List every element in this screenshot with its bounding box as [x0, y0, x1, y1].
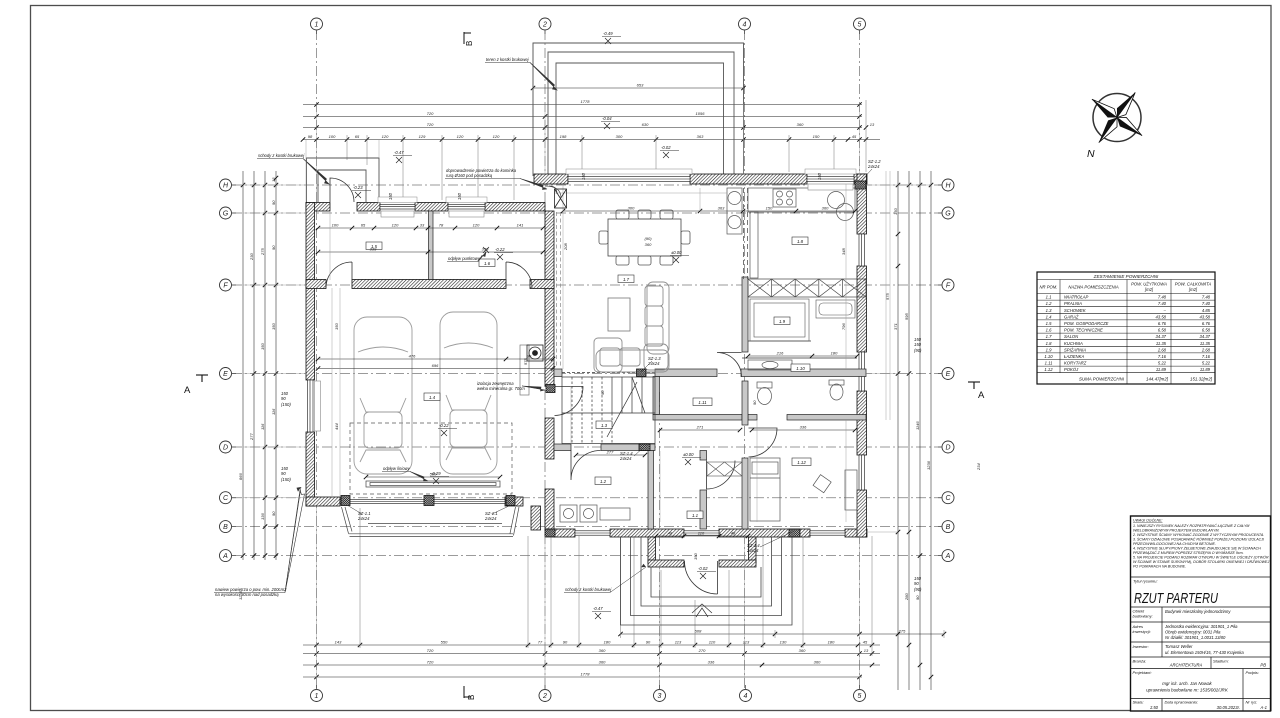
svg-text:ŁAZIENKA: ŁAZIENKA	[1064, 354, 1084, 359]
wall: right	[857, 174, 867, 234]
window bedroom bottom	[810, 531, 845, 535]
svg-text:(90): (90)	[644, 236, 652, 241]
svg-text:(90): (90)	[914, 587, 922, 592]
svg-text:24x24: 24x24	[867, 164, 880, 169]
svg-text:Skala:: Skala:	[1133, 700, 1144, 705]
grid row C	[232, 497, 942, 499]
svg-text:7.48: 7.48	[1158, 295, 1167, 300]
dim ticks left	[241, 176, 278, 558]
svg-text:6.58: 6.58	[1158, 328, 1167, 333]
svg-text:1:50: 1:50	[1150, 705, 1159, 710]
svg-text:5. NA PROJEKCIE PODANO ROZMIAR: 5. NA PROJEKCIE PODANO ROZMIAR OTWORU W …	[1133, 555, 1269, 560]
svg-text:PRZECIWWILGOCIOWEJ NA CHUDYM B: PRZECIWWILGOCIOWEJ NA CHUDYM BETONIE.	[1133, 542, 1216, 546]
hall divider right	[700, 451, 707, 461]
svg-text:100: 100	[332, 223, 339, 228]
svg-text:SUMA POWIERZCHNI: SUMA POWIERZCHNI	[1079, 377, 1125, 382]
svg-text:24x24: 24x24	[357, 516, 370, 521]
svg-text:100: 100	[329, 134, 336, 139]
svg-text:208: 208	[563, 243, 568, 251]
svg-text:1: 1	[315, 22, 319, 29]
svg-text:271: 271	[696, 425, 704, 430]
svg-text:SPIŻARNIA: SPIŻARNIA	[1064, 347, 1086, 352]
svg-text:13: 13	[870, 122, 875, 127]
svg-text:150: 150	[817, 172, 822, 180]
svg-text:N: N	[1087, 148, 1095, 160]
door arc steps top-left	[330, 178, 354, 202]
bath top line	[742, 357, 857, 359]
svg-text:D: D	[223, 445, 228, 452]
svg-text:65: 65	[355, 134, 360, 139]
svg-text:-0.47: -0.47	[593, 606, 603, 611]
door arc bath	[717, 353, 742, 378]
svg-text:1778: 1778	[581, 672, 591, 677]
garage gate	[340, 500, 505, 504]
svg-text:508: 508	[695, 629, 702, 634]
svg-text:1.9: 1.9	[779, 319, 786, 324]
coffee table	[608, 298, 630, 331]
INTERIOR DIM ROWS	[318, 211, 857, 536]
section marker A right	[968, 382, 980, 389]
svg-text:150: 150	[334, 323, 339, 330]
svg-text:90: 90	[600, 390, 605, 395]
ROOM LABEL BOXES	[366, 237, 811, 519]
svg-text:A: A	[978, 390, 985, 401]
interior partitions	[429, 211, 867, 529]
svg-text:110: 110	[709, 640, 716, 645]
entry direction chevron	[692, 604, 712, 617]
door arc bedroom	[749, 428, 778, 457]
svg-text:WIELOBRANŻOWYM PROJEKTEM BUDOW: WIELOBRANŻOWYM PROJEKTEM BUDOWLANYM.	[1133, 529, 1219, 533]
extra extension lines texture	[243, 104, 931, 680]
svg-text:120: 120	[457, 134, 464, 139]
svg-text:-0.49: -0.49	[603, 31, 613, 36]
svg-text:144.47[m2]: 144.47[m2]	[1146, 377, 1169, 382]
extension verticals bottom	[360, 508, 944, 656]
svg-text:150: 150	[914, 342, 922, 347]
svg-text:B: B	[223, 524, 228, 531]
porch wall right	[749, 537, 757, 563]
svg-text:G: G	[223, 211, 229, 218]
COMPASS ROSE	[1074, 74, 1161, 161]
car 2	[440, 312, 497, 474]
fireplace	[555, 189, 567, 208]
svg-text:1.3: 1.3	[601, 423, 608, 428]
svg-text:budowlany:: budowlany:	[1133, 614, 1153, 619]
top dim numbers	[308, 83, 875, 140]
svg-text:Inwestor:: Inwestor:	[1133, 644, 1149, 649]
svg-text:360: 360	[822, 206, 829, 211]
svg-text:NAZWA POMIESZCZENIA: NAZWA POMIESZCZENIA	[1068, 285, 1118, 290]
svg-text:7.16: 7.16	[1202, 354, 1211, 359]
svg-text:KORYTARZ: KORYTARZ	[1064, 361, 1087, 366]
driveway ramp	[342, 507, 520, 537]
wall: step garage/house	[531, 506, 541, 530]
AREA TABLE	[1037, 272, 1215, 384]
window kitchen	[807, 177, 854, 182]
svg-text:720: 720	[427, 122, 434, 127]
svg-text:PO POMIARACH NA BUDOWIE.: PO POMIARACH NA BUDOWIE.	[1133, 565, 1186, 569]
svg-text:1.4: 1.4	[429, 395, 436, 400]
svg-text:7.40: 7.40	[1202, 301, 1211, 306]
svg-text:-0.47: -0.47	[394, 150, 404, 155]
svg-text:5: 5	[858, 22, 862, 29]
small upper sills above windows	[378, 169, 856, 203]
svg-text:1.11: 1.11	[698, 400, 707, 405]
dining table	[599, 210, 690, 265]
window utility 2	[448, 205, 485, 210]
svg-text:150: 150	[457, 192, 462, 200]
svg-text:-0.22: -0.22	[495, 247, 505, 252]
svg-text:11.35: 11.35	[1156, 341, 1167, 346]
svg-text:1.2: 1.2	[1046, 301, 1052, 306]
svg-text:POW. UŻYTKOWA: POW. UŻYTKOWA	[1131, 282, 1167, 287]
svg-text:7.40: 7.40	[1158, 301, 1167, 306]
svg-text:136: 136	[260, 513, 265, 520]
DIMENSION CHAINS	[243, 88, 944, 690]
right dim chains	[897, 171, 899, 690]
porch wall bottom right	[719, 560, 756, 567]
svg-text:150: 150	[813, 134, 820, 139]
bedroom/hall wall	[742, 277, 748, 352]
svg-text:43.58: 43.58	[1200, 314, 1211, 319]
extension verticals top	[347, 43, 866, 200]
svg-text:1.10: 1.10	[1044, 354, 1053, 359]
grid row E	[232, 373, 942, 375]
svg-text:24x24: 24x24	[647, 361, 660, 366]
svg-text:(150): (150)	[281, 402, 291, 407]
wall below stairs	[554, 444, 571, 451]
svg-text:48: 48	[668, 531, 673, 536]
svg-text:B: B	[946, 524, 951, 531]
wall above corridor	[554, 369, 562, 377]
svg-text:wełna mineralna gr. 70cm: wełna mineralna gr. 70cm	[477, 386, 525, 391]
svg-text:5.22: 5.22	[1158, 361, 1167, 366]
svg-text:1.12: 1.12	[1044, 367, 1053, 372]
chair bedroom	[813, 475, 831, 493]
svg-text:1.4: 1.4	[1046, 314, 1052, 319]
svg-text:5.22: 5.22	[1202, 361, 1211, 366]
svg-text:48: 48	[731, 531, 736, 536]
svg-text:653: 653	[637, 83, 644, 88]
svg-text:360: 360	[645, 242, 652, 247]
svg-text:363: 363	[697, 134, 704, 139]
svg-text:500: 500	[430, 472, 437, 477]
grid row A	[232, 555, 942, 557]
svg-text:[m2]: [m2]	[1188, 287, 1198, 292]
svg-text:180: 180	[831, 351, 838, 356]
svg-text:1778: 1778	[581, 99, 591, 104]
bottom dim row 720/360/270/360	[303, 653, 880, 655]
svg-text:1.8: 1.8	[797, 239, 804, 244]
bubble stems	[232, 30, 943, 690]
svg-text:1. NINIEJSZY RYSUNEK NALEŻY RO: 1. NINIEJSZY RYSUNEK NALEŻY ROZPATRYWAĆ …	[1133, 523, 1249, 528]
svg-text:120: 120	[382, 134, 389, 139]
svg-text:2: 2	[542, 693, 547, 700]
bedroom desk	[845, 470, 857, 510]
svg-text:360: 360	[797, 122, 804, 127]
svg-text:150: 150	[693, 553, 698, 560]
svg-text:143: 143	[335, 640, 342, 645]
laundry machines	[560, 505, 630, 522]
svg-text:98: 98	[308, 134, 313, 139]
svg-text:360: 360	[599, 648, 606, 653]
svg-text:D: D	[945, 445, 950, 452]
svg-text:275: 275	[260, 248, 265, 256]
svg-text:13: 13	[864, 648, 869, 653]
svg-text:1.1: 1.1	[1046, 295, 1052, 300]
svg-text:120: 120	[473, 223, 480, 228]
svg-text:±0.00: ±0.00	[671, 250, 682, 255]
entry steps top-left	[307, 158, 380, 202]
wall: left	[306, 203, 315, 381]
left dim numbers rotated	[238, 177, 276, 600]
svg-text:NR POM.: NR POM.	[1040, 285, 1058, 290]
bottom dim row 508/275	[620, 633, 944, 635]
grid row G	[232, 212, 942, 214]
svg-text:180: 180	[828, 640, 835, 645]
svg-text:SCHOWEK: SCHOWEK	[1064, 308, 1086, 313]
svg-text:1.5: 1.5	[1046, 321, 1052, 326]
dim ticks bottom	[314, 632, 946, 679]
svg-text:11.89: 11.89	[1156, 367, 1167, 372]
bottom dim numbers	[335, 629, 906, 677]
svg-text:141: 141	[517, 223, 524, 228]
svg-text:WIATROŁAP: WIATROŁAP	[1064, 295, 1089, 300]
svg-text:90: 90	[563, 640, 568, 645]
svg-text:SALON: SALON	[1064, 334, 1079, 339]
grid line 3	[659, 392, 661, 689]
garage radiator	[520, 345, 529, 395]
svg-text:F: F	[946, 283, 951, 290]
terrace step 2	[548, 52, 734, 176]
svg-text:Tomasz Weller: Tomasz Weller	[1165, 644, 1193, 649]
svg-text:A: A	[945, 553, 951, 560]
section marker A left	[196, 375, 208, 382]
svg-text:339: 339	[370, 247, 377, 252]
svg-text:(90): (90)	[914, 348, 922, 353]
wall: house bottom	[554, 529, 575, 537]
door arc 1.2	[571, 451, 601, 481]
svg-text:11.35: 11.35	[1200, 341, 1211, 346]
right dim numbers rotated	[893, 208, 931, 601]
svg-text:-0.02: -0.02	[661, 145, 671, 150]
window garage left	[308, 380, 314, 432]
svg-text:1056: 1056	[696, 111, 706, 116]
svg-text:24x24: 24x24	[746, 548, 759, 553]
pantry shelves	[750, 299, 809, 341]
top dim row 720/1056	[303, 116, 862, 118]
svg-text:336: 336	[800, 425, 807, 430]
svg-text:ARCHITEKTURA: ARCHITEKTURA	[1169, 663, 1203, 668]
svg-text:575: 575	[885, 293, 890, 300]
TITLE BLOCK	[1131, 516, 1271, 711]
svg-text:630: 630	[642, 122, 649, 127]
window 1.2	[575, 531, 610, 535]
grid row H	[232, 184, 942, 186]
svg-text:150: 150	[260, 343, 265, 350]
door arc 1.5	[326, 262, 352, 288]
hall/1.2 divider	[648, 451, 654, 530]
svg-text:PRALNIA: PRALNIA	[1064, 301, 1082, 306]
svg-text:1.6: 1.6	[1046, 328, 1052, 333]
svg-text:90: 90	[281, 471, 286, 476]
svg-text:24x24: 24x24	[484, 516, 497, 521]
svg-text:UWAGI OGÓLNE:: UWAGI OGÓLNE:	[1133, 518, 1163, 523]
dim ticks right	[896, 183, 933, 679]
svg-text:E: E	[223, 371, 228, 378]
svg-text:575: 575	[523, 358, 528, 365]
svg-text:90: 90	[646, 640, 651, 645]
svg-text:90: 90	[752, 400, 757, 405]
svg-text:300: 300	[616, 134, 623, 139]
stair direction line	[607, 382, 637, 437]
wardrobe truss	[748, 279, 866, 297]
svg-text:360: 360	[814, 660, 821, 665]
svg-text:360: 360	[599, 660, 606, 665]
svg-text:198: 198	[560, 134, 567, 139]
pantry bottom line	[748, 340, 811, 342]
svg-text:275: 275	[898, 629, 906, 634]
svg-text:866: 866	[238, 473, 243, 480]
entry door gap	[684, 531, 719, 535]
chimney labels	[281, 159, 922, 592]
door arc hall	[707, 461, 736, 490]
section marker B bottom	[464, 686, 471, 698]
grid line 4	[744, 30, 746, 689]
CHIMNEY BLOCKS	[545, 181, 866, 537]
svg-text:696: 696	[432, 363, 439, 368]
pipe bend at fireplace corner	[545, 186, 561, 198]
svg-text:230: 230	[249, 253, 254, 261]
svg-text:A: A	[184, 385, 191, 396]
bottom dim row 1778	[303, 676, 862, 678]
svg-text:280: 280	[904, 593, 909, 601]
partition 1.5/1.6	[429, 211, 434, 280]
svg-text:550: 550	[441, 640, 448, 645]
svg-text:90: 90	[271, 511, 276, 516]
svg-text:1.7: 1.7	[623, 277, 630, 282]
stairwell open line	[562, 372, 655, 374]
ramp chimney blocks SZ-1.1	[341, 496, 515, 506]
svg-text:34.37: 34.37	[1156, 334, 1167, 339]
svg-text:1.8: 1.8	[1046, 341, 1052, 346]
top dim row 720/630/360	[303, 127, 862, 129]
corridor/stairs wall	[653, 377, 660, 415]
svg-text:90: 90	[914, 581, 919, 586]
svg-text:13: 13	[271, 177, 276, 182]
svg-text:78: 78	[439, 223, 444, 228]
svg-text:±0.00: ±0.00	[683, 452, 694, 457]
svg-text:1.12: 1.12	[797, 460, 806, 465]
svg-text:65: 65	[361, 223, 366, 228]
svg-text:Data opracowania:: Data opracowania:	[1165, 700, 1198, 705]
svg-text:POM. TECHNICZNE: POM. TECHNICZNE	[1064, 328, 1103, 333]
ENTRY PORCH bottom	[648, 537, 756, 567]
svg-text:W ŚCIANIE W STANIE SUROWYM), D: W ŚCIANIE W STANIE SUROWYM), DOBÓR STOLA…	[1133, 559, 1269, 564]
toilet	[757, 382, 772, 405]
bed	[750, 458, 780, 521]
grid line 1	[316, 30, 318, 689]
door arc 1.6	[506, 262, 532, 288]
boiler 1.6	[527, 345, 543, 361]
svg-text:720: 720	[427, 660, 434, 665]
svg-text:rurą Ø160 pod posadzką: rurą Ø160 pod posadzką	[446, 173, 493, 178]
svg-text:1.9: 1.9	[1046, 347, 1052, 352]
ELEVATION MARKERS	[352, 31, 716, 619]
grid row F	[232, 284, 942, 286]
svg-text:ZESTAWIENIE POWIERZCHNI: ZESTAWIENIE POWIERZCHNI	[1093, 274, 1159, 279]
wall: garage bottom	[306, 497, 340, 506]
porch wall left	[648, 537, 656, 563]
window sills	[315, 184, 854, 431]
svg-text:90: 90	[271, 245, 276, 250]
svg-text:34.37: 34.37	[1200, 334, 1211, 339]
svg-text:7.16: 7.16	[1158, 354, 1167, 359]
DOOR ARCS	[326, 178, 777, 489]
svg-text:277: 277	[606, 450, 614, 455]
svg-text:2.68: 2.68	[1201, 347, 1211, 352]
dim ticks top	[301, 86, 868, 142]
svg-text:RZUT PARTERU: RZUT PARTERU	[1134, 591, 1218, 607]
porch steps	[621, 537, 793, 625]
svg-text:90: 90	[527, 354, 532, 359]
terrace step 3	[556, 63, 724, 174]
svg-text:4: 4	[744, 693, 748, 700]
svg-text:1.7: 1.7	[1046, 334, 1052, 339]
svg-text:POW. CAŁKOWITA: POW. CAŁKOWITA	[1175, 282, 1212, 287]
wall: mid vertical	[545, 211, 554, 386]
svg-text:116: 116	[260, 423, 265, 430]
svg-text:45: 45	[852, 134, 857, 139]
svg-text:360: 360	[799, 648, 806, 653]
entry door arc	[685, 561, 718, 594]
svg-text:1236: 1236	[926, 460, 931, 470]
svg-text:1.11: 1.11	[1045, 361, 1053, 366]
svg-text:2.68: 2.68	[1157, 347, 1167, 352]
window bedroom right	[859, 455, 865, 490]
svg-text:150: 150	[766, 206, 773, 211]
WALLS	[306, 174, 867, 537]
svg-text:110: 110	[698, 531, 705, 536]
svg-text:Stadium:: Stadium:	[1213, 659, 1229, 664]
kitchen counter	[727, 188, 855, 278]
svg-text:Obręb ewidencyjny: 0031 Piła: Obręb ewidencyjny: 0031 Piła	[1165, 630, 1221, 635]
wall: utility top	[306, 203, 330, 212]
svg-text:F: F	[223, 283, 228, 290]
svg-text:90: 90	[281, 396, 286, 401]
TERRACE top right	[533, 43, 744, 176]
svg-text:PRZEWIĄZAĆ Z MUREM POPRZEZ STR: PRZEWIĄZAĆ Z MUREM POPRZEZ STRZĘPIA O WY…	[1133, 550, 1244, 555]
car 1	[354, 317, 412, 474]
window terrace door	[568, 177, 690, 182]
svg-text:363: 363	[718, 206, 725, 211]
svg-text:129: 129	[419, 134, 426, 139]
svg-text:180: 180	[604, 640, 611, 645]
STAIRS	[562, 377, 655, 444]
svg-text:A: A	[222, 553, 228, 560]
grid line 5	[859, 30, 861, 689]
svg-text:1.10: 1.10	[796, 366, 805, 371]
svg-text:POKÓJ: POKÓJ	[1064, 367, 1079, 372]
svg-text:277: 277	[249, 433, 254, 441]
bidet	[829, 380, 844, 400]
svg-text:1.3: 1.3	[1046, 308, 1052, 313]
svg-text:GARAŻ: GARAŻ	[1064, 314, 1079, 319]
svg-text:444: 444	[334, 423, 339, 430]
door arc corridor-garage	[555, 387, 584, 416]
svg-text:348: 348	[841, 248, 846, 255]
svg-text:[m2]: [m2]	[1144, 287, 1154, 292]
